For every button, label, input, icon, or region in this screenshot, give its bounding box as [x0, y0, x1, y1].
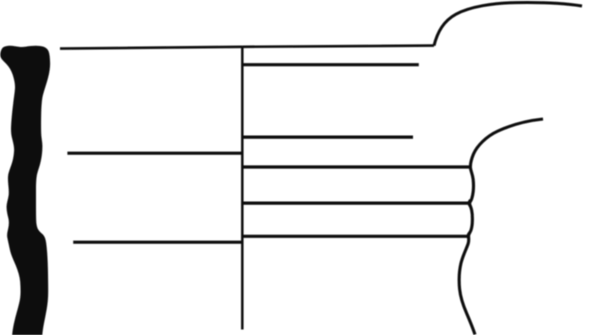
shoulder line right — [243, 165, 471, 168]
left lower line — [73, 241, 242, 244]
left shoulder line — [67, 152, 242, 155]
pottery section profile (left filled blob) — [0, 46, 50, 335]
inner rim line — [243, 63, 419, 66]
body profile curve (right, with break wiggles) — [459, 119, 543, 335]
neck line — [243, 136, 413, 139]
body line 2 — [242, 235, 468, 238]
axis vertical line — [241, 46, 244, 329]
rim top line (left of axis) — [60, 47, 242, 49]
top-right rim curve — [434, 3, 582, 46]
rim top line (right of axis) — [242, 46, 434, 47]
break mark at body line 2 junction — [468, 232, 470, 239]
break mark at body line 1 junction — [469, 200, 471, 207]
body line 1 — [243, 202, 470, 205]
